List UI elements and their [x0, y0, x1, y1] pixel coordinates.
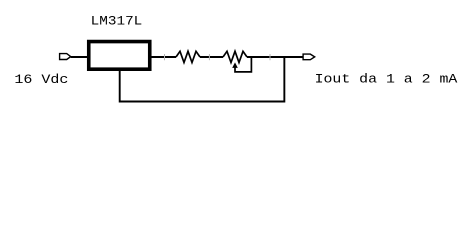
potentiometer R2 element [223, 51, 247, 62]
pin end tick [269, 54, 271, 60]
pin end tick [208, 54, 210, 60]
wire: R2 to output connector [247, 56, 303, 58]
wire: R1 to potentiometer R2 [200, 56, 223, 58]
input connector J1 (16 Vdc) [60, 54, 71, 60]
regulator U1 LM317L body [89, 42, 150, 70]
svg-text:LM317L: LM317L [91, 14, 143, 29]
output connector J2 (Iout) [303, 54, 315, 60]
wire: regulator output to resistor R1 [150, 56, 176, 58]
potentiometer R2 wiper arrow [232, 62, 238, 68]
wire: wiper loop to R2 right terminal [235, 58, 251, 72]
resistor R1 [176, 51, 200, 62]
pin end tick [164, 54, 166, 60]
wire: input connector to regulator [71, 56, 88, 58]
wire: adjust feedback loop (ADJ pin down, across, up to output node) [120, 57, 285, 102]
svg-text:16 Vdc: 16 Vdc [14, 72, 68, 87]
svg-text:Iout da 1 a 2 mA: Iout da 1 a 2 mA [315, 71, 458, 86]
